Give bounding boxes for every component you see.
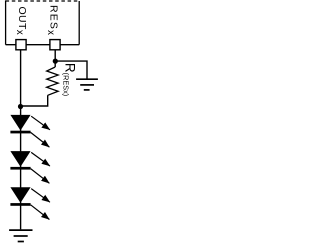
pin terminal square OUTx <box>16 40 26 50</box>
svg-text:RESx: RESx <box>45 5 59 35</box>
IC box top edge (dashed) <box>6 0 80 2</box>
ground (right, at RESx node) <box>76 79 98 90</box>
IC box (partial, dashed top edge) <box>6 0 80 44</box>
junction dot at OUTx node <box>18 104 23 109</box>
pin terminal square RESx <box>50 40 60 50</box>
wire: RESx pin down to junction <box>54 50 56 67</box>
LED D3 <box>10 187 50 219</box>
resistor R(RESx) zigzag <box>47 67 58 95</box>
wire: RESx node to right ground <box>55 61 87 79</box>
IC box right edge <box>78 1 80 45</box>
LED D2 <box>10 151 50 183</box>
LED D1 <box>10 115 50 147</box>
IC box bottom edge <box>6 44 80 46</box>
wire: resistor bottom to OUTx node <box>21 95 48 106</box>
svg-text:R(RESx): R(RESx) <box>62 63 78 96</box>
wire: OUTx pin down through LED string to ground <box>20 50 22 230</box>
ground (bottom of LED string) <box>9 230 32 241</box>
svg-text:OUTx: OUTx <box>14 7 28 35</box>
junction dot at RESx node <box>53 59 58 64</box>
IC box left edge <box>5 0 7 44</box>
